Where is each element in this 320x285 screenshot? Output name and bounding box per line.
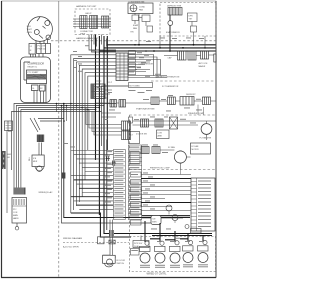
svg-text:COMPRESSOR: COMPRESSOR (139, 64, 154, 66)
svg-text:PTC START: PTC START (28, 71, 40, 74)
svg-text:FF DOOR: FF DOOR (117, 260, 126, 262)
svg-text:GE/LP: GE/LP (85, 13, 92, 15)
svg-text:EVAPORATOR: EVAPORATOR (166, 31, 180, 34)
svg-text:FC THERMISTOR: FC THERMISTOR (162, 86, 179, 88)
svg-text:WIRED-OT CNTRL: WIRED-OT CNTRL (147, 273, 168, 275)
svg-text:LOW: LOW (158, 133, 163, 135)
svg-text:FRESH FOOD COMP: FRESH FOOD COMP (150, 168, 170, 170)
svg-text:MKR: MKR (152, 222, 157, 224)
svg-text:WTR VLV: WTR VLV (134, 243, 143, 245)
svg-text:MTR: MTR (207, 138, 212, 140)
svg-text:NO: NO (7, 157, 10, 159)
svg-text:MAIN: MAIN (13, 214, 18, 217)
svg-text:WIRES@D-AC: WIRES@D-AC (39, 191, 54, 194)
svg-text:MKR: MKR (33, 161, 38, 163)
svg-text:HARN: HARN (13, 217, 19, 220)
svg-text:FC FAN: FC FAN (168, 146, 175, 149)
svg-text:DFR: DFR (189, 16, 194, 18)
svg-text:SER: SER (7, 154, 12, 156)
svg-text:HARNESS-TOP UNIT: HARNESS-TOP UNIT (76, 5, 97, 8)
svg-text:GRN: GRN (27, 32, 32, 34)
svg-text:J15 P: J15 P (107, 82, 113, 84)
svg-text:OL: OL (32, 88, 35, 90)
svg-text:VIEW: VIEW (80, 33, 85, 35)
svg-text:RELAY OL: RELAY OL (28, 66, 38, 69)
svg-text:CAP: CAP (168, 57, 173, 60)
svg-text:COND: COND (139, 7, 145, 9)
svg-text:WIRING DIAGRAM: WIRING DIAGRAM (63, 237, 82, 240)
svg-text:MOTOR: MOTOR (192, 149, 200, 151)
svg-text:CONDENSER FAN: CONDENSER FAN (128, 0, 145, 3)
svg-text:FAN: FAN (139, 9, 143, 12)
svg-text:FC FAN: FC FAN (200, 137, 207, 140)
svg-text:EVAPORATOR FAN: EVAPORATOR FAN (136, 108, 155, 111)
svg-text:FAN: FAN (133, 27, 137, 30)
svg-text:COMPRESSOR: COMPRESSOR (28, 64, 45, 66)
svg-text:P1 CON: P1 CON (38, 46, 46, 48)
svg-text:FREEZER COMP: FREEZER COMP (188, 113, 205, 115)
svg-text:4 DOOR SW: 4 DOOR SW (136, 134, 147, 136)
svg-text:SWITCH: SWITCH (117, 263, 125, 265)
svg-text:MAKER: MAKER (199, 65, 206, 68)
svg-text:P12: P12 (13, 209, 16, 211)
svg-text:NOT USED: NOT USED (130, 85, 141, 87)
svg-text:FC FAN: FC FAN (192, 145, 199, 148)
svg-text:AUTO ICE: AUTO ICE (199, 62, 209, 65)
svg-text:CABINET DISTRIBUTION: CABINET DISTRIBUTION (155, 76, 180, 79)
svg-text:A-DOT-D SPKR: A-DOT-D SPKR (63, 246, 79, 249)
svg-text:EVAP: EVAP (133, 24, 139, 27)
svg-text:CON: CON (13, 212, 18, 214)
svg-text:FILL: FILL (29, 157, 31, 161)
svg-text:WHT: WHT (27, 29, 33, 31)
svg-text:DUAL: DUAL (134, 245, 139, 248)
svg-text:BLK: BLK (27, 26, 32, 28)
svg-text:DEFROST HTR: DEFROST HTR (167, 6, 182, 8)
svg-text:PWR CD: PWR CD (38, 49, 47, 51)
svg-text:DEFROST: DEFROST (186, 94, 196, 96)
